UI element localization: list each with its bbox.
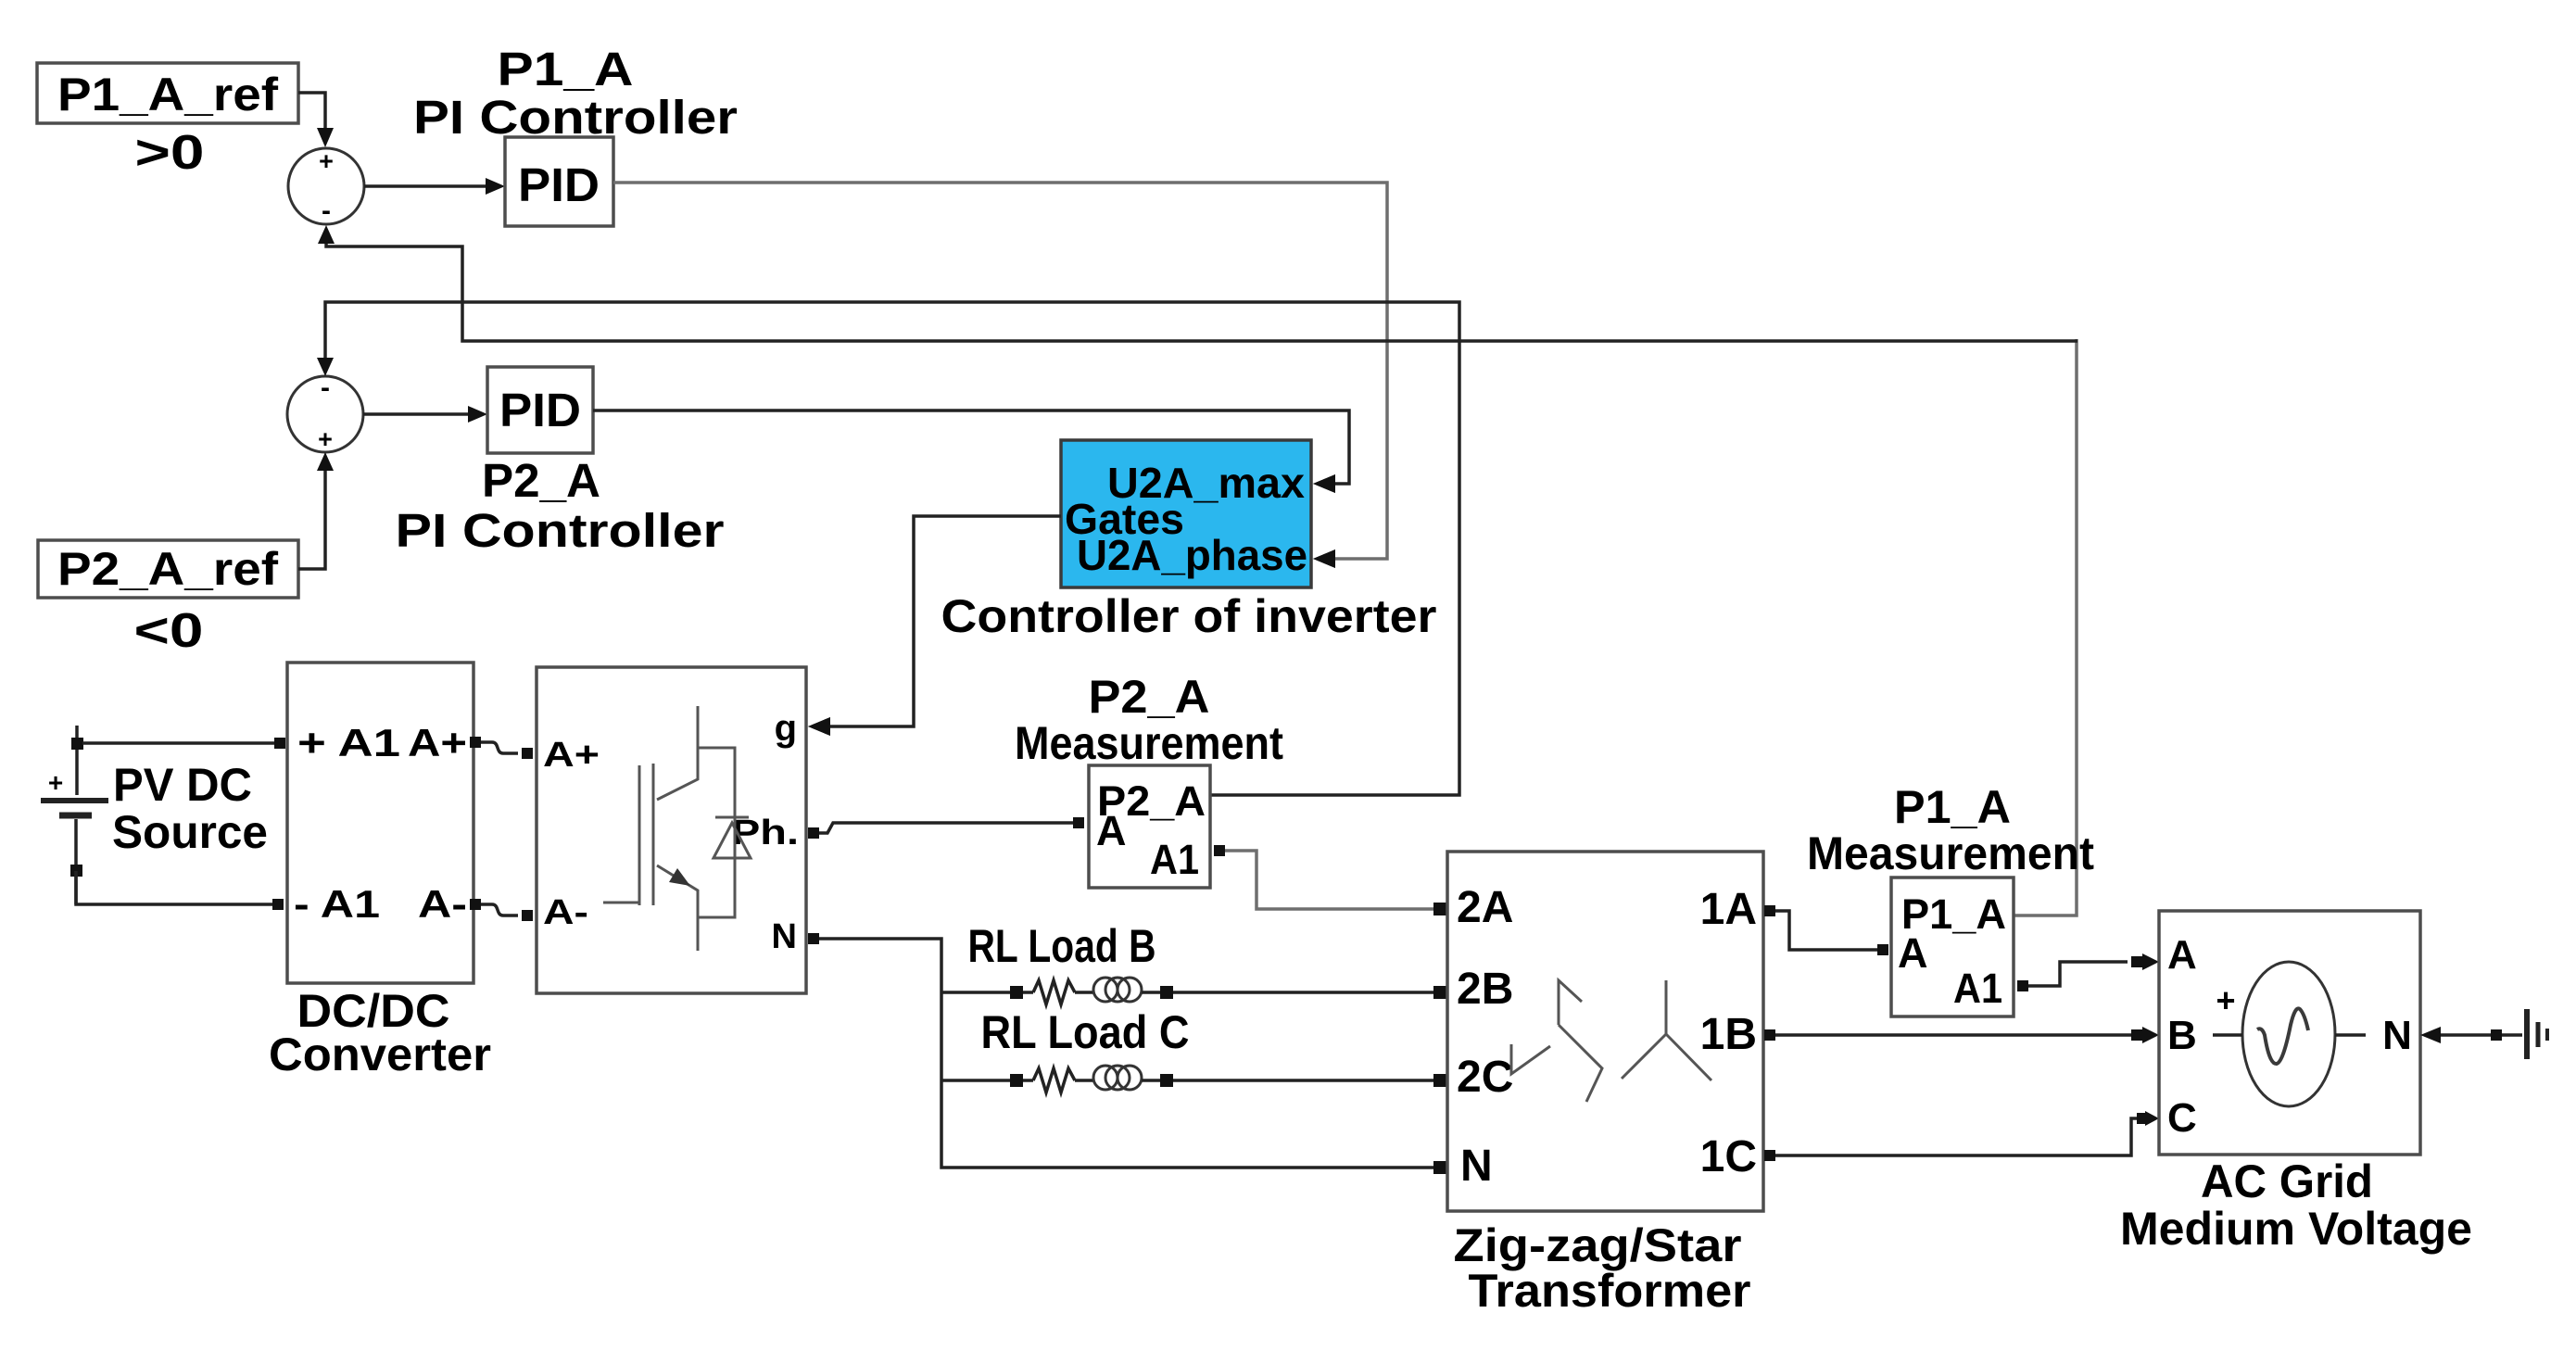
wire P1_A measurement feedback to SUM1 minus input <box>318 225 2077 915</box>
wire Gates output to inverter g input <box>808 516 1061 736</box>
P1_A measurement block U_PM1 <box>1891 878 2014 1016</box>
svg-text:+: + <box>319 147 334 175</box>
wire P2_A meas A1 output to transformer 2A <box>1214 845 1446 915</box>
svg-text:-: - <box>321 372 330 403</box>
wire P2_A measurement feedback to SUM2 top input <box>317 302 1459 795</box>
zigzag winding icon <box>1511 980 1602 1102</box>
PV DC source E1 (battery) <box>41 726 108 904</box>
svg-text:2C: 2C <box>1457 1053 1513 1102</box>
inverter block U_INV <box>537 667 806 993</box>
svg-text:A-: A- <box>418 882 467 926</box>
wire inverter N to loads and transformer N <box>808 933 1446 1174</box>
zig-zag/star transformer block U_TR <box>1447 852 1763 1211</box>
wire transformer 1A to P1_A meas A input <box>1764 905 1888 955</box>
svg-text:Transformer: Transformer <box>1469 1265 1751 1317</box>
svg-text:A: A <box>1096 807 1127 854</box>
svg-text:Zig-zag/Star: Zig-zag/Star <box>1454 1219 1742 1271</box>
svg-text:P2_A_ref: P2_A_ref <box>57 543 278 595</box>
svg-text:PI Controller: PI Controller <box>396 504 725 557</box>
wire P1_A_ref to SUM1 <box>298 93 334 147</box>
label P2_A Measurement <box>1015 671 1283 769</box>
RL load B branch (resistor RB + inductor LB) <box>941 978 1446 1004</box>
label P1_A PI Controller <box>413 43 738 144</box>
wire AC grid N to ground <box>2420 1027 2522 1043</box>
diode icon inside inverter <box>713 817 751 858</box>
svg-text:P2_A: P2_A <box>1089 671 1210 723</box>
AC source icon (ellipse with sine) <box>2213 962 2366 1106</box>
wire transformer 1B to AC grid B <box>1764 1027 2159 1043</box>
wire DC/DC A- to inverter A- <box>470 899 533 921</box>
svg-text:A+: A+ <box>543 736 600 775</box>
svg-text:PID: PID <box>499 384 581 436</box>
label AC Grid Medium Voltage <box>2120 1155 2472 1255</box>
P2_A measurement block U_PM2 <box>1089 765 1210 888</box>
wire U2A_phase input arrow <box>1313 549 1335 568</box>
svg-text:1C: 1C <box>1700 1132 1757 1181</box>
label P2_A PI Controller <box>396 454 725 557</box>
svg-text:PID: PID <box>518 158 600 211</box>
svg-text:RL Load C: RL Load C <box>981 1006 1190 1058</box>
svg-text:P1_A_ref: P1_A_ref <box>57 69 278 120</box>
svg-text:Source: Source <box>112 806 268 858</box>
svg-text:A: A <box>1898 929 1928 977</box>
svg-text:+: + <box>318 425 333 453</box>
svg-text:B: B <box>2167 1013 2197 1058</box>
wire SUM2 to PID2 <box>363 406 487 423</box>
svg-text:<0: <0 <box>134 604 204 658</box>
wire P2_A_ref to SUM2 plus input <box>298 452 334 569</box>
RL load C branch (resistor RC + inductor LC) <box>941 1066 1446 1092</box>
svg-text:>0: >0 <box>135 126 205 180</box>
wire inverter Ph to P2_A measurement A input <box>808 817 1084 839</box>
source block P2_A_ref <box>38 540 298 598</box>
label Zig-zag/Star Transformer <box>1454 1219 1751 1317</box>
svg-text:Controller of inverter: Controller of inverter <box>941 590 1437 642</box>
label PV DC Source <box>112 759 268 858</box>
svg-text:RL Load B: RL Load B <box>968 920 1156 972</box>
svg-text:A: A <box>2167 932 2197 978</box>
wire battery minus to DC/DC -A1 <box>76 871 284 910</box>
wire SUM1 to PID1 <box>364 178 505 195</box>
svg-text:1B: 1B <box>1700 1010 1757 1059</box>
wire PID2 output to U2A_max input <box>593 410 1349 493</box>
DC/DC converter block U_DCDC <box>287 663 474 983</box>
svg-text:Measurement: Measurement <box>1807 827 2094 879</box>
wire transformer 1C to AC grid C <box>1764 1111 2159 1161</box>
svg-text:U2A_phase: U2A_phase <box>1077 531 1307 579</box>
svg-text:N: N <box>772 917 797 956</box>
svg-text:Measurement: Measurement <box>1015 717 1283 769</box>
svg-text:P1_A: P1_A <box>498 43 634 95</box>
svg-text:A-: A- <box>543 893 588 932</box>
wire PID1 output to U2A_phase input <box>613 183 1387 568</box>
wire g input arrow <box>808 717 830 736</box>
svg-text:A+: A+ <box>408 721 467 764</box>
svg-text:2A: 2A <box>1457 883 1513 932</box>
PI controller block U_PID1 <box>505 137 613 226</box>
svg-text:Ph.: Ph. <box>731 814 799 852</box>
svg-text:+: + <box>2216 981 2235 1019</box>
star winding icon <box>1622 980 1711 1080</box>
wire DC/DC A+ to inverter A+ <box>470 737 533 759</box>
svg-text:P2_A: P2_A <box>482 454 600 507</box>
svg-text:N: N <box>2382 1013 2412 1058</box>
summing junction SUM2 <box>287 372 363 453</box>
svg-text:-: - <box>322 196 331 226</box>
PI controller block U_PID2 <box>487 367 593 453</box>
svg-text:- A1: - A1 <box>294 882 380 926</box>
wire battery plus to DC/DC +A1 <box>82 738 285 749</box>
svg-text:N: N <box>1460 1142 1493 1191</box>
svg-text:A1: A1 <box>1150 836 1199 883</box>
svg-text:Converter: Converter <box>269 1029 491 1080</box>
IGBT icon inside inverter <box>603 706 735 951</box>
svg-text:P1_A: P1_A <box>1894 781 2011 833</box>
ground symbol G1 <box>2527 1009 2547 1059</box>
svg-text:+: + <box>48 768 63 797</box>
label P1_A Measurement <box>1807 781 2094 879</box>
svg-text:Medium Voltage: Medium Voltage <box>2120 1203 2472 1255</box>
svg-text:C: C <box>2167 1095 2197 1141</box>
svg-text:PV DC: PV DC <box>113 759 252 811</box>
AC grid block U_GRID <box>2159 911 2420 1155</box>
controller of inverter block U_CTRL (cyan) <box>1061 440 1311 587</box>
summing junction SUM1 <box>288 147 364 226</box>
svg-text:2B: 2B <box>1457 965 1513 1014</box>
wire U2A_max input arrow <box>1313 474 1335 493</box>
svg-text:PI Controller: PI Controller <box>413 91 738 144</box>
label DC/DC Converter <box>269 985 491 1080</box>
svg-text:1A: 1A <box>1700 885 1757 934</box>
svg-text:AC Grid: AC Grid <box>2201 1155 2373 1207</box>
wire P1_A meas A1 output to AC grid A input <box>2017 953 2159 991</box>
svg-text:g: g <box>775 708 797 749</box>
svg-text:A1: A1 <box>1953 965 2002 1012</box>
svg-text:+ A1: + A1 <box>297 721 400 764</box>
source block P1_A_ref <box>37 63 298 123</box>
